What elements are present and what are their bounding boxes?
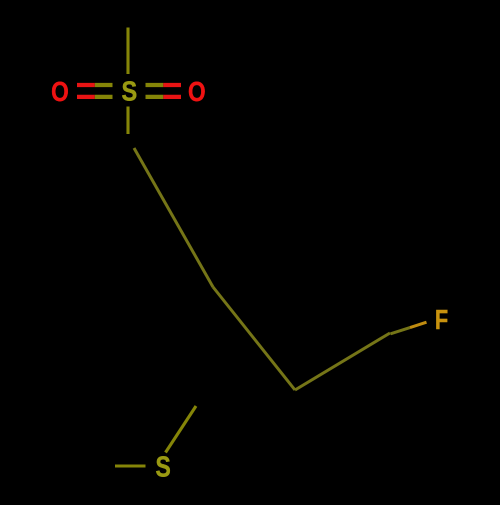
- svg-text:S: S: [121, 77, 137, 107]
- svg-text:F: F: [435, 304, 448, 335]
- wire bond sulfonyl S to aryl stub: [126, 107, 129, 135]
- wire C-F bond olive half: [391, 328, 411, 334]
- wire long bond D3: [295, 333, 390, 390]
- wire S=O right double bond top line: [146, 83, 164, 87]
- svg-text:S: S: [156, 450, 171, 483]
- svg-text:O: O: [188, 77, 206, 108]
- wire long bond D1: [134, 148, 213, 287]
- wire CH3-S bond bottom left: [115, 464, 146, 467]
- wire C-F bond orange half: [410, 322, 427, 327]
- svg-text:O: O: [51, 77, 69, 108]
- wire S-C diagonal stub bottom: [166, 406, 197, 453]
- wire methyl bond CH3-S: [126, 28, 129, 75]
- wire S=O left double bond top line: [77, 83, 95, 87]
- wire long bond D2: [213, 287, 295, 390]
- wire S=O left double bond bottom line: [77, 95, 95, 99]
- wire S=O right double bond bottom line: [146, 95, 164, 99]
